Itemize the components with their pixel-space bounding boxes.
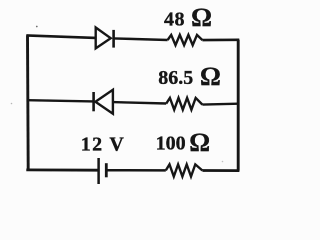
scan speck near top-left (36, 26, 38, 28)
svg-text:86.5: 86.5 (158, 67, 193, 89)
wire right vertical (237, 40, 240, 171)
resistor R1 48 ohm zigzag (168, 35, 203, 45)
wire middle: diode D2 to resistor R2 (113, 102, 166, 103)
diode D1 triangle (96, 28, 111, 49)
wire bottom: battery V1 to resistor R3 (106, 169, 166, 172)
svg-text:Ω: Ω (189, 128, 210, 157)
battery V1 positive plate (long) (97, 158, 100, 184)
wire bottom: left corner to battery V1 (26, 168, 98, 171)
svg-text:48: 48 (164, 8, 185, 30)
svg-text:Ω: Ω (200, 62, 221, 91)
diode D1 cathode bar (112, 30, 115, 48)
wire left vertical (26, 35, 30, 170)
diode D2 triangle (95, 90, 113, 114)
wire top: resistor R1 to right corner (202, 38, 239, 41)
svg-text:100: 100 (156, 133, 186, 155)
resistor R2 86.5 ohm zigzag (166, 98, 202, 110)
scan speck left margin (11, 103, 13, 105)
wire bottom: resistor R3 to right corner (202, 169, 239, 172)
scan speck right lower (222, 161, 224, 163)
battery V1 negative plate (short) (105, 163, 108, 177)
wire middle: left vertical to diode D2 (28, 100, 94, 101)
wire top: left corner to diode D1 (26, 35, 96, 38)
diode D2 cathode bar (92, 92, 95, 111)
wire middle: resistor R2 to right vertical (202, 102, 238, 105)
resistor R3 100 ohm zigzag (166, 164, 203, 176)
svg-text:12 V: 12 V (81, 133, 125, 155)
wire top: diode D1 to resistor R1 (114, 38, 168, 40)
svg-text:Ω: Ω (191, 3, 212, 32)
